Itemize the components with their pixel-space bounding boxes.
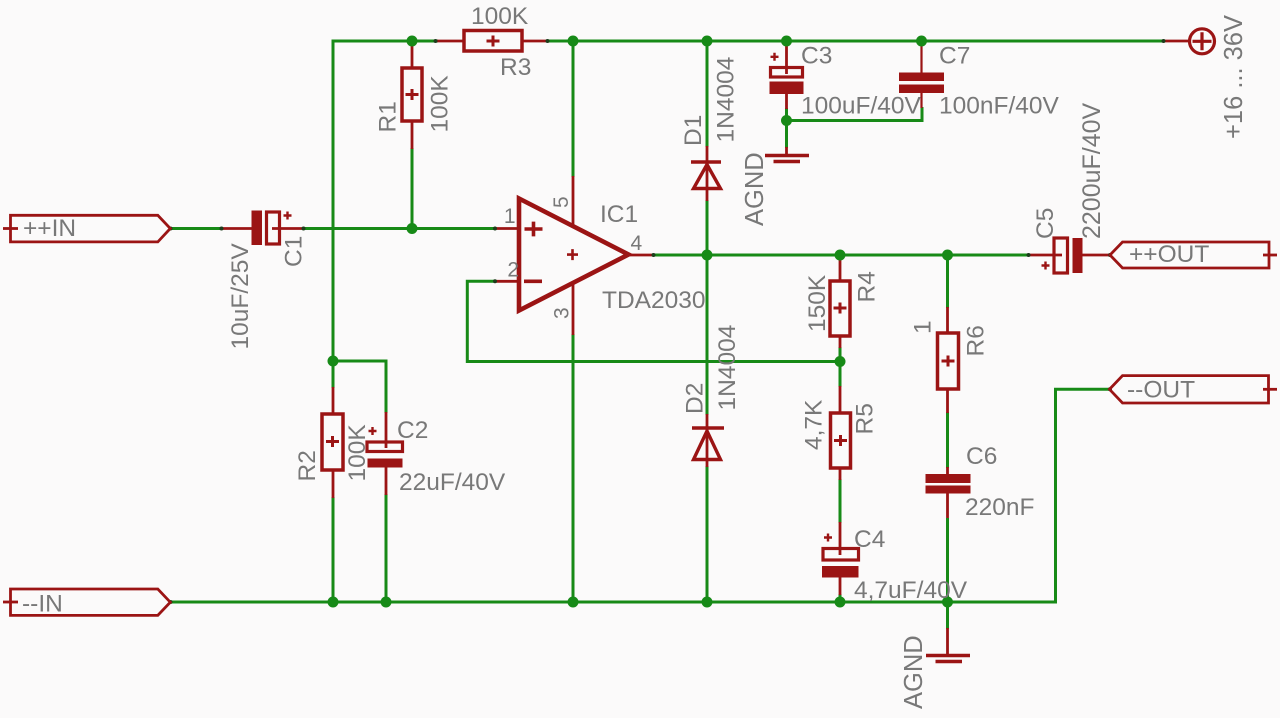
wire pin 2 feedback <box>467 281 841 361</box>
svg-text:AGND: AGND <box>900 635 928 709</box>
resistor R3 <box>464 31 522 52</box>
svg-text:22uF/40V: 22uF/40V <box>399 469 506 496</box>
svg-text:2200uF/40V: 2200uF/40V <box>1078 102 1106 239</box>
svg-text:150K: 150K <box>804 274 831 332</box>
pin R4 top <box>839 255 842 282</box>
pin 5 stub <box>572 176 575 228</box>
junction pin3/bottom rail <box>568 597 579 608</box>
wire R1 bottom to input node <box>411 148 414 229</box>
pin D2 through <box>706 414 709 467</box>
wire endpoint dot <box>169 227 173 231</box>
svg-text:D2: D2 <box>682 383 709 414</box>
capacitor C3 plus plate <box>771 68 803 78</box>
junction C3/rail <box>781 36 792 47</box>
pin C5 left <box>1028 254 1062 257</box>
svg-text:C5: C5 <box>1032 208 1059 239</box>
origin cross R4 <box>834 303 847 314</box>
wire D1 bottom <box>706 200 709 255</box>
pin 4 stub <box>628 254 654 257</box>
wire R2 bottom <box>332 497 335 603</box>
junction D2/bottom rail <box>702 597 713 608</box>
pin C3 bottom <box>785 93 788 109</box>
pin C7 top <box>920 41 922 73</box>
pin AGND 1 stub <box>785 147 788 155</box>
origin cross R1 <box>406 89 419 100</box>
diode D2 <box>692 428 724 460</box>
wire ++IN to C1 <box>169 227 223 230</box>
plus mark C1 <box>284 212 292 220</box>
svg-text:100K: 100K <box>427 75 454 133</box>
junction C4/bottom rail <box>835 597 846 608</box>
pin R2 top <box>332 387 335 415</box>
pin C6 bottom <box>946 492 949 518</box>
svg-text:5: 5 <box>550 196 573 208</box>
wire --OUT horizontal <box>1054 388 1110 391</box>
capacitor C2 minus plate <box>368 459 403 468</box>
origin cross IC1 <box>567 249 578 260</box>
capacitor C6 plate 1 <box>926 474 971 483</box>
svg-text:+16 ... 36V: +16 ... 36V <box>1220 15 1248 139</box>
junction D1-D2/output <box>702 250 713 261</box>
svg-text:R5: R5 <box>852 403 879 434</box>
svg-text:4,7K: 4,7K <box>801 399 828 450</box>
capacitor C1 minus plate <box>252 211 263 246</box>
pin R4 bottom <box>839 335 842 348</box>
pin --OUT tick <box>1263 388 1277 391</box>
junction R2/bottom rail <box>328 597 339 608</box>
wire C2 bottom <box>385 494 388 603</box>
svg-text:++OUT: ++OUT <box>1129 241 1209 268</box>
pin R6 top <box>946 307 949 334</box>
junction pin5/rail <box>568 36 579 47</box>
capacitor C7 plate 1 <box>899 73 944 82</box>
svg-text:220nF: 220nF <box>965 494 1034 521</box>
pin R2 bottom <box>332 469 335 498</box>
svg-text:R6: R6 <box>963 325 990 356</box>
svg-text:100K: 100K <box>471 3 529 30</box>
wire --OUT riser <box>1054 388 1057 604</box>
wire C3/C7 ground link <box>787 107 923 121</box>
wire C6 to bottom rail <box>946 518 949 603</box>
capacitor C5 plus plate <box>1054 238 1068 273</box>
pin C4 bottom <box>839 576 842 595</box>
junction R1/rail <box>407 36 418 47</box>
ground AGND 2 <box>926 656 970 662</box>
connector --IN <box>11 589 171 615</box>
pin D1 through <box>706 146 709 201</box>
pin 1 stub <box>495 227 520 230</box>
capacitor C4 plus plate <box>823 549 859 561</box>
svg-text:10uF/25V: 10uF/25V <box>227 243 254 350</box>
pin R5 bottom <box>839 467 842 480</box>
svg-text:R1: R1 <box>375 101 402 132</box>
svg-text:100nF/40V: 100nF/40V <box>939 93 1060 120</box>
junction D1/rail <box>702 36 713 47</box>
origin cross R6 <box>942 356 955 367</box>
svg-text:R3: R3 <box>500 54 531 81</box>
pin C5 right <box>1078 254 1110 257</box>
wire endpoint dot <box>1108 387 1112 391</box>
wire endpoint dot <box>169 600 173 604</box>
plus mark C3 <box>771 53 779 61</box>
svg-text:TDA2030: TDA2030 <box>602 287 706 314</box>
junction R4/R5 feedback <box>835 356 846 367</box>
pin C2 bottom <box>385 466 388 495</box>
pin ++IN tick <box>3 227 18 230</box>
plus mark C4 <box>824 534 832 542</box>
pin 3 stub <box>572 282 575 335</box>
pin R3 left <box>436 40 465 43</box>
wire endpoint dot <box>302 227 306 231</box>
wire endpoint dot <box>1027 253 1031 257</box>
svg-text:--OUT: --OUT <box>1127 377 1195 404</box>
wire C2 top <box>385 361 388 413</box>
svg-text:1: 1 <box>504 205 516 228</box>
pin AGND 2 stub <box>946 628 949 655</box>
svg-text:C2: C2 <box>397 417 428 444</box>
wire R4 bottom <box>839 347 842 362</box>
wire endpoint dot <box>546 39 550 43</box>
origin cross R2 <box>326 436 339 447</box>
pin R6 bottom <box>946 388 949 413</box>
pin C1 right <box>272 227 304 230</box>
pin supply stub <box>1163 40 1190 43</box>
ground AGND 1 <box>765 156 809 162</box>
wire V+ rail <box>548 40 1164 43</box>
resistor R4 <box>830 281 850 336</box>
svg-text:1N4004: 1N4004 <box>713 57 740 143</box>
svg-text:D1: D1 <box>680 115 707 146</box>
svg-text:--IN: --IN <box>22 591 63 618</box>
plus mark C2 <box>369 427 377 435</box>
resistor R2 <box>322 414 343 470</box>
capacitor C1 plus plate <box>267 212 280 244</box>
resistor R6 <box>938 333 959 389</box>
wire endpoint dot <box>434 39 438 43</box>
plus mark C5 <box>1042 262 1050 270</box>
svg-text:IC1: IC1 <box>600 201 638 228</box>
wire R2 top <box>332 361 335 388</box>
wire AGND stub net <box>946 602 949 629</box>
junction AGND/bottom rail <box>942 597 953 608</box>
wire R6 top <box>946 255 949 308</box>
supply terminal circle <box>1190 29 1215 54</box>
wire D2 bottom <box>706 466 709 603</box>
wire D1 top <box>706 41 709 147</box>
wire endpoint dot <box>652 253 656 257</box>
wire bias jog to C2 <box>333 360 388 363</box>
wire pin 3 to bottom rail <box>572 334 575 603</box>
connector ++IN <box>11 215 171 242</box>
svg-text:R2: R2 <box>294 450 321 481</box>
svg-text:C4: C4 <box>854 526 885 553</box>
wire V+ bias rail left of R3 <box>333 40 438 43</box>
junction C7/rail <box>916 36 927 47</box>
capacitor C7 plate 2 <box>899 85 944 94</box>
wire endpoint dot <box>1108 253 1112 257</box>
wire endpoint dot <box>493 227 497 231</box>
wire endpoint dot <box>1162 39 1166 43</box>
capacitor C2 plus plate <box>367 442 403 452</box>
pin C4 top <box>839 522 842 555</box>
pin R3 right <box>521 40 549 43</box>
wire bottom rail (--IN / ground) <box>169 601 1057 604</box>
wire C1 to pin 1 <box>303 227 496 230</box>
wire bias vertical <box>332 40 335 363</box>
pin C7 bottom <box>920 92 922 108</box>
wire output net <box>653 254 1029 257</box>
pin C3 top <box>785 41 788 74</box>
capacitor C6 plate 2 <box>926 486 971 494</box>
svg-text:100K: 100K <box>344 424 371 482</box>
wire C4 to bottom rail <box>839 594 842 603</box>
op-amp plus input mark <box>525 222 543 237</box>
svg-text:C1: C1 <box>281 236 308 267</box>
svg-text:R4: R4 <box>854 271 881 302</box>
capacitor C4 minus plate <box>822 566 859 578</box>
svg-text:4: 4 <box>631 232 643 255</box>
pin C2 top <box>385 412 388 448</box>
svg-text:3: 3 <box>551 307 574 319</box>
svg-text:1N4004: 1N4004 <box>714 325 741 411</box>
svg-text:C3: C3 <box>801 43 832 70</box>
junction R1/input <box>407 223 418 234</box>
wire R6 to C6 <box>946 412 949 468</box>
op-amp minus input mark <box>524 279 542 283</box>
wire R5 top <box>839 362 842 388</box>
pin C6 top <box>946 467 949 476</box>
junction R6/output <box>942 250 953 261</box>
svg-text:100uF/40V: 100uF/40V <box>801 93 922 120</box>
wire C3 bottom <box>785 108 788 121</box>
resistor R1 <box>402 68 422 121</box>
pin R1 bottom <box>411 120 414 149</box>
connector ++OUT <box>1110 242 1269 268</box>
wire to AGND 1 <box>785 121 788 149</box>
pin C1 left <box>221 227 252 230</box>
capacitor C5 minus plate <box>1073 238 1083 273</box>
supply terminal plus <box>1193 32 1212 50</box>
junction bias node <box>328 356 339 367</box>
svg-text:2: 2 <box>507 259 519 282</box>
origin cross R3 <box>487 36 500 47</box>
junction R4/output <box>835 250 846 261</box>
capacitor C3 minus plate <box>770 82 804 95</box>
svg-text:C7: C7 <box>939 43 970 70</box>
svg-text:++IN: ++IN <box>23 215 76 242</box>
pin R1 top <box>411 41 414 69</box>
svg-text:C6: C6 <box>966 443 997 470</box>
diode D1 <box>691 162 721 189</box>
wire R5 to C4 <box>839 479 842 523</box>
pin R5 top <box>839 386 842 414</box>
origin cross R5 <box>834 435 847 446</box>
svg-text:4,7uF/40V: 4,7uF/40V <box>854 577 968 604</box>
svg-text:AGND: AGND <box>741 152 769 226</box>
pin --IN tick <box>3 601 18 604</box>
wire endpoint dot <box>220 227 224 231</box>
svg-text:1: 1 <box>910 320 937 334</box>
resistor R5 <box>831 413 851 468</box>
junction C3/C7 ground <box>781 115 792 126</box>
pin ++OUT tick <box>1263 254 1277 257</box>
wire pin 5 to V+ rail <box>572 41 575 177</box>
connector --OUT <box>1110 376 1269 403</box>
wire D2 top <box>706 255 709 415</box>
op-amp U1 triangle <box>519 199 629 311</box>
junction C2/bottom rail <box>381 597 392 608</box>
pin 2 stub <box>495 280 521 283</box>
wire endpoint dot <box>493 279 497 283</box>
